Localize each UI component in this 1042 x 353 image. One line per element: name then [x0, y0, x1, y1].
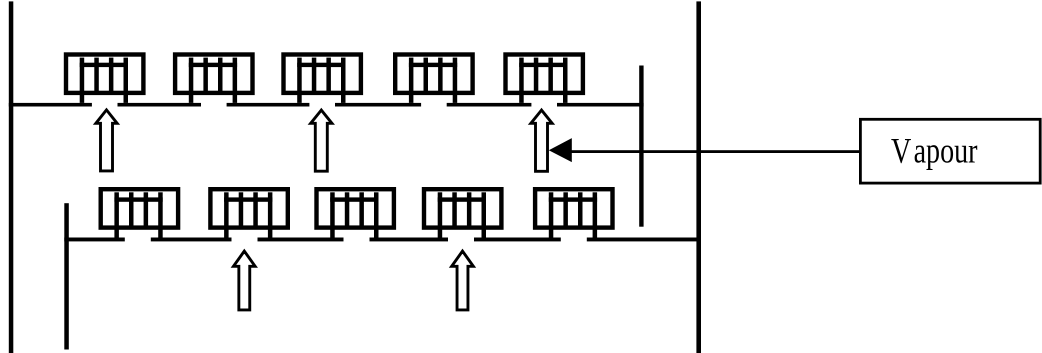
column right wall: [696, 1, 701, 353]
bubble cap L3 (lower tray): [317, 189, 394, 237]
bubble cap L4 (lower tray): [424, 189, 501, 237]
vapour flow arrow A3 (through upper tray, right): [531, 110, 552, 171]
lower tray deck: [64, 238, 701, 242]
vapour flow arrow A5 (through lower tray, right): [452, 251, 474, 310]
vapour flow arrow A4 (through lower tray, left): [233, 251, 255, 310]
bubble cap L2 (lower tray): [210, 189, 287, 237]
upper tray deck: [9, 103, 644, 107]
bubble cap U1 (upper tray): [66, 55, 143, 103]
vapour label box: [860, 119, 1040, 183]
vapour flow arrow A2 (through upper tray, middle): [311, 110, 332, 171]
vapour feed arrowhead: [549, 138, 572, 162]
vapour flow arrow A1 (through upper tray, left): [96, 110, 117, 171]
bubble cap U2 (upper tray): [175, 55, 252, 103]
bubble cap U4 (upper tray): [395, 55, 472, 103]
lower-left wall segment: [64, 203, 69, 349]
downcomer pipe (right of upper tray): [639, 66, 643, 227]
vapour feed line: [560, 150, 860, 153]
bubble cap L1 (lower tray): [101, 189, 178, 237]
column left wall: [9, 1, 14, 353]
svg-text:V apour: V apour: [891, 130, 978, 170]
bubble cap U5 (upper tray): [506, 55, 583, 103]
bubble cap L5 (lower tray): [535, 189, 612, 237]
bubble cap U3 (upper tray): [284, 55, 361, 103]
